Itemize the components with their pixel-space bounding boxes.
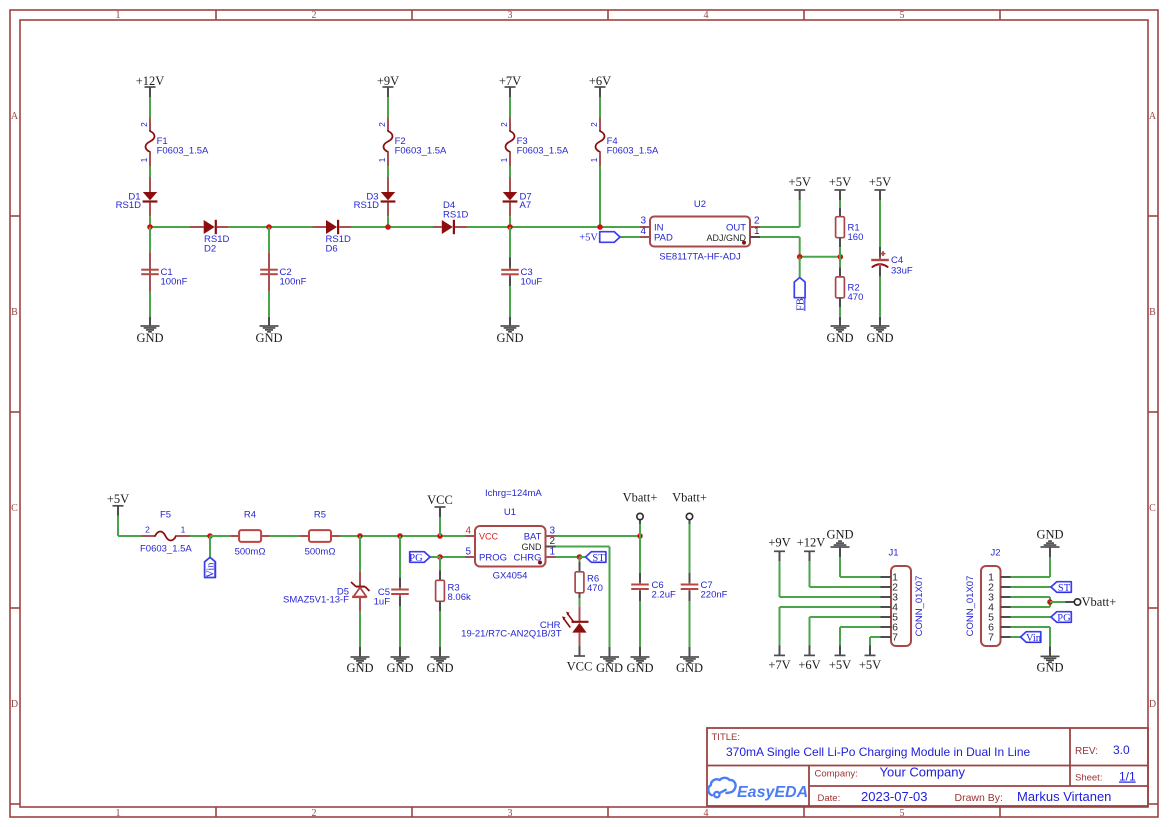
svg-text:+6V: +6V xyxy=(589,74,611,88)
svg-text:10uF: 10uF xyxy=(521,276,543,287)
svg-text:D2: D2 xyxy=(204,244,216,255)
svg-text:2: 2 xyxy=(312,10,317,21)
svg-text:+7V: +7V xyxy=(499,74,521,88)
svg-text:100nF: 100nF xyxy=(161,277,188,288)
svg-text:F0603_1.5A: F0603_1.5A xyxy=(157,146,209,157)
svg-text:2: 2 xyxy=(377,122,387,127)
svg-text:F5: F5 xyxy=(160,510,171,521)
svg-text:Markus Virtanen: Markus Virtanen xyxy=(1017,789,1111,804)
svg-text:1: 1 xyxy=(499,157,509,162)
svg-text:1: 1 xyxy=(116,10,121,21)
svg-text:1: 1 xyxy=(589,157,599,162)
svg-text:Vbatt+: Vbatt+ xyxy=(1082,595,1117,609)
svg-text:7: 7 xyxy=(988,632,994,644)
svg-text:F0603_1.5A: F0603_1.5A xyxy=(517,146,569,157)
svg-text:19-21/R7C-AN2Q1B/3T: 19-21/R7C-AN2Q1B/3T xyxy=(461,629,562,640)
svg-text:1: 1 xyxy=(139,157,149,162)
svg-text:GND: GND xyxy=(136,331,163,345)
svg-text:GND: GND xyxy=(866,331,893,345)
svg-text:Vbatt+: Vbatt+ xyxy=(623,491,658,505)
svg-text:+9V: +9V xyxy=(768,536,790,550)
svg-text:RS1D: RS1D xyxy=(354,200,379,211)
svg-text:SE8117TA-HF-ADJ: SE8117TA-HF-ADJ xyxy=(659,252,741,263)
svg-text:C: C xyxy=(1149,503,1156,514)
svg-text:5: 5 xyxy=(465,547,471,558)
svg-text:F0603_1.5A: F0603_1.5A xyxy=(140,544,192,555)
svg-text:5: 5 xyxy=(900,808,905,819)
svg-text:RS1D: RS1D xyxy=(116,200,141,211)
svg-text:SMAZ5V1-13-F: SMAZ5V1-13-F xyxy=(283,595,349,606)
svg-text:GX4054: GX4054 xyxy=(493,571,528,582)
svg-text:GND: GND xyxy=(255,331,282,345)
svg-text:2: 2 xyxy=(145,525,150,535)
svg-text:B: B xyxy=(1149,307,1156,318)
svg-text:4: 4 xyxy=(704,10,709,21)
svg-text:8.06k: 8.06k xyxy=(448,592,471,603)
svg-text:+5V: +5V xyxy=(869,175,891,189)
svg-text:+6V: +6V xyxy=(798,658,820,672)
svg-text:REV:: REV: xyxy=(1075,746,1098,757)
svg-text:D: D xyxy=(1149,699,1156,710)
svg-text:500mΩ: 500mΩ xyxy=(305,547,336,558)
svg-text:PG: PG xyxy=(409,553,423,564)
svg-text:CONN_01X07: CONN_01X07 xyxy=(965,576,976,637)
svg-text:2: 2 xyxy=(139,122,149,127)
svg-text:R4: R4 xyxy=(244,510,256,521)
svg-text:J2: J2 xyxy=(990,548,1000,559)
svg-text:ADJ/GND: ADJ/GND xyxy=(706,233,746,243)
svg-text:7: 7 xyxy=(892,632,898,644)
svg-text:C4: C4 xyxy=(891,255,903,266)
svg-text:+5V: +5V xyxy=(107,492,129,506)
svg-text:1/1: 1/1 xyxy=(1119,770,1136,784)
svg-text:CONN_01X07: CONN_01X07 xyxy=(914,576,925,637)
svg-text:33uF: 33uF xyxy=(891,266,913,277)
svg-text:Drawn By:: Drawn By: xyxy=(955,792,1003,804)
svg-text:GND: GND xyxy=(386,661,413,675)
svg-text:1: 1 xyxy=(754,226,760,237)
svg-text:OUT: OUT xyxy=(726,223,746,234)
svg-text:+12V: +12V xyxy=(136,74,165,88)
svg-text:2023-07-03: 2023-07-03 xyxy=(861,789,928,804)
svg-text:2: 2 xyxy=(589,122,599,127)
svg-text:Date:: Date: xyxy=(818,793,841,804)
svg-text:+5V: +5V xyxy=(829,658,851,672)
svg-text:GND: GND xyxy=(1036,528,1063,542)
svg-text:2: 2 xyxy=(312,808,317,819)
svg-text:Vin: Vin xyxy=(1026,633,1042,644)
svg-text:U1: U1 xyxy=(504,507,516,518)
svg-text:GND: GND xyxy=(626,661,653,675)
svg-text:A7: A7 xyxy=(520,200,532,211)
svg-text:GND: GND xyxy=(522,542,543,552)
svg-text:220nF: 220nF xyxy=(701,590,728,601)
svg-text:470: 470 xyxy=(587,583,603,594)
svg-text:PG: PG xyxy=(1057,613,1071,624)
svg-text:GND: GND xyxy=(596,661,623,675)
svg-text:+9V: +9V xyxy=(377,74,399,88)
svg-text:5: 5 xyxy=(900,10,905,21)
svg-text:ST: ST xyxy=(592,553,605,564)
svg-text:ST: ST xyxy=(1058,583,1071,594)
svg-text:+5V: +5V xyxy=(789,175,811,189)
svg-text:500mΩ: 500mΩ xyxy=(235,547,266,558)
svg-text:470: 470 xyxy=(848,292,864,303)
svg-text:F0603_1.5A: F0603_1.5A xyxy=(395,146,447,157)
svg-text:+5V: +5V xyxy=(579,233,598,244)
svg-text:4: 4 xyxy=(465,526,471,537)
svg-text:GND: GND xyxy=(346,661,373,675)
svg-text:1: 1 xyxy=(116,808,121,819)
svg-text:GND: GND xyxy=(676,661,703,675)
svg-text:370mA Single Cell Li-Po Chargi: 370mA Single Cell Li-Po Charging Module … xyxy=(726,745,1031,759)
svg-text:3: 3 xyxy=(508,808,513,819)
svg-text:RS1D: RS1D xyxy=(443,210,468,221)
svg-text:160: 160 xyxy=(848,232,864,243)
svg-text:D: D xyxy=(11,699,18,710)
svg-text:1: 1 xyxy=(181,525,186,535)
svg-text:1uF: 1uF xyxy=(374,597,391,608)
svg-text:+12V: +12V xyxy=(797,536,826,550)
svg-text:C: C xyxy=(11,503,18,514)
svg-text:VCC: VCC xyxy=(567,660,593,674)
svg-text:F0603_1.5A: F0603_1.5A xyxy=(607,146,659,157)
svg-text:2: 2 xyxy=(499,122,509,127)
svg-text:+5V: +5V xyxy=(859,658,881,672)
svg-text:GND: GND xyxy=(826,528,853,542)
svg-text:+7V: +7V xyxy=(768,658,790,672)
svg-text:1: 1 xyxy=(550,547,556,558)
svg-text:B: B xyxy=(11,307,18,318)
svg-text:3: 3 xyxy=(550,526,556,537)
svg-text:Company:: Company: xyxy=(815,769,858,780)
svg-text:1: 1 xyxy=(377,157,387,162)
svg-text:3: 3 xyxy=(508,10,513,21)
svg-text:Vin: Vin xyxy=(205,562,216,578)
svg-text:2: 2 xyxy=(550,536,556,547)
svg-text:GND: GND xyxy=(496,331,523,345)
svg-text:PAD: PAD xyxy=(654,233,673,244)
svg-text:GND: GND xyxy=(826,331,853,345)
svg-text:Vbatt+: Vbatt+ xyxy=(672,491,707,505)
svg-text:Ichrg=124mA: Ichrg=124mA xyxy=(485,488,542,499)
svg-text:Your Company: Your Company xyxy=(880,765,966,780)
svg-text:2.2uF: 2.2uF xyxy=(652,590,676,601)
svg-text:100nF: 100nF xyxy=(280,277,307,288)
svg-text:VCC: VCC xyxy=(479,532,499,542)
svg-text:TITLE:: TITLE: xyxy=(712,732,741,743)
svg-text:VCC: VCC xyxy=(427,493,453,507)
svg-text:A: A xyxy=(1149,111,1157,122)
svg-text:3: 3 xyxy=(640,216,646,227)
svg-text:A: A xyxy=(11,111,19,122)
svg-text:CHRG: CHRG xyxy=(514,553,542,564)
svg-text:4: 4 xyxy=(704,808,709,819)
svg-text:GND: GND xyxy=(1036,661,1063,675)
svg-text:BAT: BAT xyxy=(524,532,542,543)
svg-text:D6: D6 xyxy=(326,244,338,255)
svg-text:U2: U2 xyxy=(694,199,706,210)
svg-text:2: 2 xyxy=(754,216,760,227)
svg-text:GND: GND xyxy=(426,661,453,675)
svg-text:4: 4 xyxy=(640,226,646,237)
svg-text:FB: FB xyxy=(795,298,806,311)
svg-text:Sheet:: Sheet: xyxy=(1075,773,1102,784)
svg-text:3.0: 3.0 xyxy=(1113,743,1130,757)
svg-text:J1: J1 xyxy=(888,548,898,559)
svg-text:+5V: +5V xyxy=(829,175,851,189)
svg-text:PROG: PROG xyxy=(479,553,507,564)
svg-text:EasyEDA: EasyEDA xyxy=(737,784,808,801)
svg-text:R5: R5 xyxy=(314,510,326,521)
